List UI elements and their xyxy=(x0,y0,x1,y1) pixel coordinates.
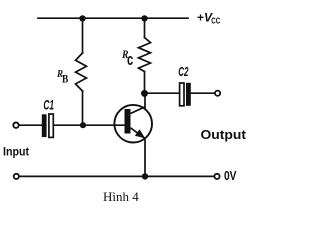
svg-text:0V: 0V xyxy=(224,169,237,183)
svg-text:Input: Input xyxy=(3,144,29,158)
wire collector to C2 node xyxy=(145,92,180,94)
capacitor C1 xyxy=(42,114,54,137)
node junction collector C2 xyxy=(141,90,148,97)
wire RB top vertical xyxy=(82,18,84,53)
label RC xyxy=(121,47,133,69)
terminal 0V right xyxy=(214,174,219,179)
svg-text:Output: Output xyxy=(201,127,247,142)
wire collector vertical xyxy=(144,93,146,108)
wire RC bottom vertical xyxy=(144,72,146,94)
transistor Q1 xyxy=(114,105,152,143)
wire input terminal to C1 xyxy=(19,124,42,126)
wire RC top vertical xyxy=(144,18,146,37)
capacitor C2 xyxy=(180,83,191,106)
resistor RB xyxy=(76,53,87,91)
svg-text:Hình 4: Hình 4 xyxy=(103,189,139,204)
node junction emitter 0V xyxy=(142,173,148,179)
svg-text:B: B xyxy=(62,71,68,85)
terminal input xyxy=(13,123,18,128)
label RB xyxy=(56,68,68,86)
wire top supply rail xyxy=(38,17,188,19)
node junction top RC xyxy=(141,15,147,21)
resistor RC xyxy=(139,38,151,72)
svg-text:+: + xyxy=(197,11,204,25)
wire C1 to base node xyxy=(53,124,126,126)
svg-text:C1: C1 xyxy=(43,97,54,113)
node junction base xyxy=(80,122,86,128)
node junction top RB xyxy=(79,15,85,21)
svg-text:c: c xyxy=(127,50,133,69)
wire bottom 0V rail xyxy=(20,175,214,177)
svg-text:CC: CC xyxy=(211,16,220,25)
label +VCC xyxy=(197,11,220,26)
wire RB bottom vertical xyxy=(82,91,84,125)
terminal output xyxy=(215,91,220,96)
svg-text:C2: C2 xyxy=(178,64,189,79)
terminal 0V left xyxy=(14,174,19,179)
wire C2 to output terminal xyxy=(190,92,214,94)
wire emitter vertical xyxy=(144,138,146,176)
